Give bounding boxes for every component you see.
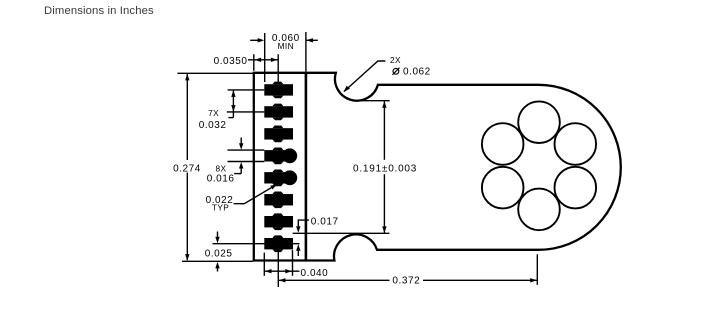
fiber circle bottom-left — [482, 167, 524, 209]
leader 0.022 TYP — [234, 185, 277, 204]
dim 0.025 — [213, 232, 300, 272]
svg-text:0.040: 0.040 — [301, 268, 329, 279]
svg-text:0.0350: 0.0350 — [214, 56, 248, 67]
dim 0.0350 — [248, 54, 278, 84]
svg-text:Dimensions in Inches: Dimensions in Inches — [44, 5, 154, 17]
contact 3 — [264, 126, 293, 143]
svg-text:TYP: TYP — [212, 203, 229, 213]
dim 0.274 — [177, 73, 253, 261]
svg-text:7X: 7X — [208, 108, 219, 118]
svg-text:0.017: 0.017 — [311, 217, 339, 228]
fiber circle top-right — [555, 123, 597, 165]
svg-text:0.191±0.003: 0.191±0.003 — [353, 163, 417, 174]
contact 4 (with ball) — [264, 148, 297, 165]
contact 5 (with ball) — [264, 170, 297, 187]
dim 0.060 MIN — [250, 32, 318, 82]
fiber circle top-left — [482, 123, 524, 165]
dim 7X 0.032 — [227, 90, 264, 118]
svg-text:2X: 2X — [390, 55, 401, 65]
leader 2X dia 0.062 — [344, 61, 386, 92]
dim 0.040 — [264, 250, 299, 276]
svg-text:8X: 8X — [216, 164, 227, 174]
fiber circle top — [518, 101, 560, 143]
contact 8 — [264, 235, 293, 252]
wall: strip right edge — [305, 73, 308, 261]
dim 0.372 — [278, 250, 537, 287]
contact 6 — [264, 191, 293, 208]
fiber circle bottom-right — [555, 167, 597, 209]
contact 7 — [264, 213, 293, 230]
svg-text:0.025: 0.025 — [205, 248, 233, 259]
svg-text:0.372: 0.372 — [392, 276, 420, 287]
svg-text:0.016: 0.016 — [207, 174, 235, 185]
dim 0.191 +/- 0.003 — [293, 101, 390, 234]
part outline — [254, 73, 621, 261]
contact 1 — [264, 82, 293, 99]
contact 2 — [264, 104, 293, 121]
svg-text:0.062: 0.062 — [403, 67, 431, 78]
dim 0.017 — [298, 220, 309, 256]
svg-text:MIN: MIN — [278, 41, 294, 51]
svg-text:0.032: 0.032 — [199, 120, 227, 131]
svg-text:0.274: 0.274 — [173, 163, 201, 174]
fiber circle bottom — [518, 189, 560, 231]
dim 8X 0.016 — [228, 138, 265, 174]
